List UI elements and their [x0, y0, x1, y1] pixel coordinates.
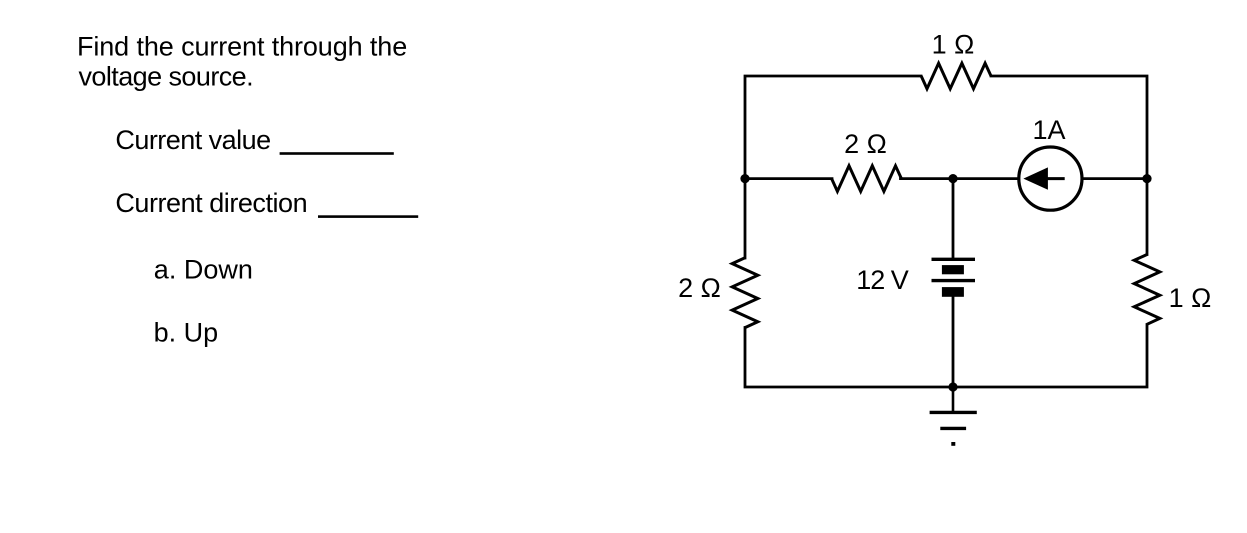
wire resistor R4 to bottom-right corner [955, 325, 1147, 388]
junction node A dot [740, 174, 749, 183]
ground bar 2 [940, 427, 966, 430]
svg-text:12 V: 12 V [856, 265, 909, 295]
resistor R3 2 ohm (left) zigzag [732, 258, 758, 328]
svg-text:2 Ω: 2 Ω [678, 273, 721, 303]
wire node B down to battery V1 [952, 179, 955, 259]
battery V1 bottom thick plate (short) [942, 287, 964, 297]
svg-text:a. Down: a. Down [154, 255, 253, 285]
svg-text:2 Ω: 2 Ω [844, 129, 887, 159]
ground bar 3 (dot) [951, 442, 955, 446]
wire left node A down to resistor R3 [744, 179, 747, 258]
battery V1 lower long plate [932, 279, 976, 282]
resistor R2 2 ohm (middle) zigzag [832, 166, 902, 192]
blank line for current value [280, 152, 394, 155]
resistor R4 1 ohm (right) zigzag [1134, 255, 1160, 325]
svg-text:b. Up: b. Up [154, 318, 219, 348]
battery V1 top plate (long) [932, 258, 976, 261]
svg-text:1A: 1A [1032, 115, 1065, 145]
current source I1 arrow shaft [1042, 177, 1065, 180]
wire resistor R3 to bottom-left corner [745, 328, 951, 388]
current source I1 arrowhead [1023, 167, 1048, 189]
svg-text:1 Ω: 1 Ω [1169, 283, 1212, 313]
wire battery V1 down to bottom node D [952, 297, 955, 387]
svg-text:Current direction: Current direction [115, 188, 307, 218]
battery V1 upper thick plate (short) [942, 265, 964, 274]
wire current source I1 to node C [1082, 177, 1147, 180]
current source I1 circle [1019, 147, 1082, 210]
junction node D dot [948, 382, 957, 391]
blank line for current direction [318, 215, 418, 218]
svg-text:Find the current through the: Find the current through the [77, 32, 407, 62]
junction node B dot [948, 174, 957, 183]
wire top-left corner to resistor R1 [745, 76, 921, 179]
resistor R1 1 ohm (top) zigzag [921, 63, 991, 89]
junction node C dot [1142, 174, 1151, 183]
wire resistor R2 to node B [901, 177, 954, 180]
svg-text:Current value: Current value [115, 125, 270, 155]
wire resistor R1 to top-right corner [991, 76, 1147, 179]
wire node A to resistor R2 [745, 177, 832, 180]
ground bar 1 [930, 411, 977, 414]
svg-text:voltage source.: voltage source. [79, 61, 254, 91]
svg-text:1 Ω: 1 Ω [932, 30, 975, 60]
ground stub wire [952, 387, 955, 412]
wire right node C down to resistor R4 [1146, 179, 1149, 255]
wire node B to current source I1 [953, 177, 1019, 180]
